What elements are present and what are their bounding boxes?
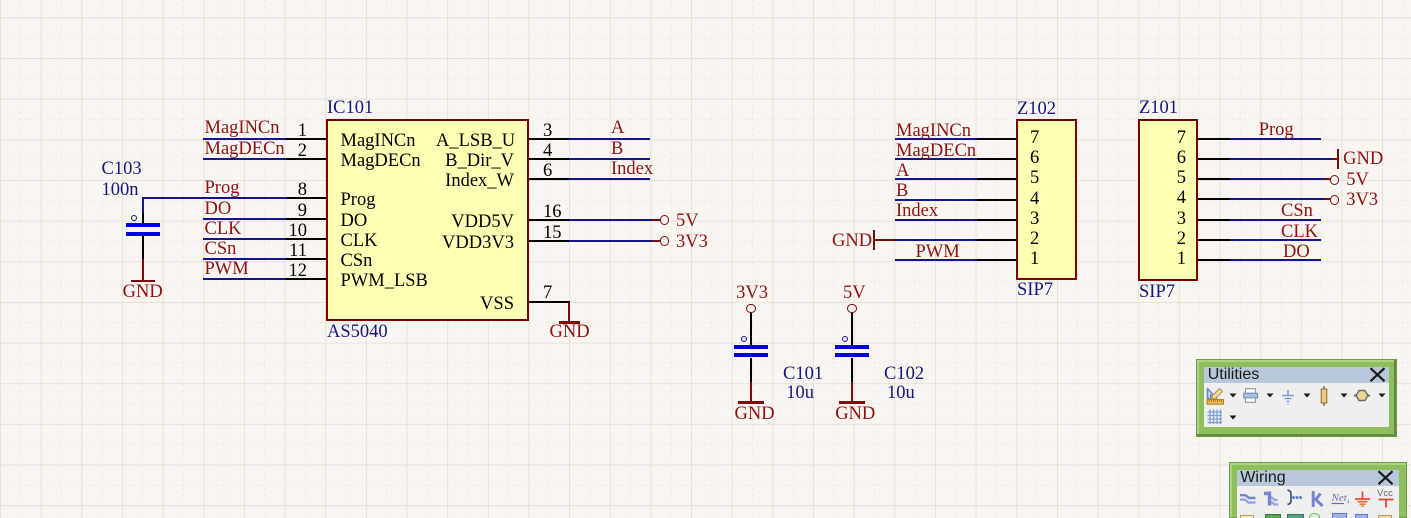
junction marker circle C103 bbox=[131, 215, 137, 221]
wire Prog (Z101) bbox=[1230, 138, 1321, 140]
pin number 7 (Z102) bbox=[1030, 129, 1039, 147]
pin 16 VDD5V: pin line bbox=[529, 219, 570, 221]
wire MagDECn (left) bbox=[203, 158, 286, 160]
pin name CLK bbox=[341, 232, 378, 250]
pin number 2 (Z101) bbox=[1168, 230, 1186, 248]
pin 7 VSS: pin line bbox=[529, 301, 570, 303]
pin number 7 bbox=[543, 284, 552, 302]
Utilities title bar bbox=[1204, 367, 1389, 383]
svg-text:Net]: Net] bbox=[1331, 492, 1349, 504]
net label MagINCn (Z102) bbox=[896, 122, 971, 140]
power port GND (Z101) bar bbox=[1337, 149, 1339, 169]
Utilities icon: power port (ground) bbox=[1280, 390, 1296, 405]
Z101 pin 7: pin line bbox=[1198, 138, 1231, 140]
wire CSn (left) bbox=[203, 258, 286, 260]
Utilities dropdown arrow 2 bbox=[1266, 393, 1274, 399]
Z101 pin 5: pin line bbox=[1198, 178, 1231, 180]
power port GND (C103) text bbox=[123, 283, 163, 301]
wire B (Z102) bbox=[895, 199, 977, 201]
net label CSn bbox=[205, 240, 237, 258]
power port 3V3 (Z101) stub bbox=[1325, 198, 1330, 200]
Utilities icon: part/pin body bbox=[1318, 386, 1330, 406]
pin name VSS bbox=[436, 295, 514, 313]
pin 8 Prog: pin line bbox=[286, 197, 326, 199]
designator Z101 bbox=[1139, 99, 1178, 117]
capacitor C101 value 10u bbox=[786, 384, 814, 402]
net label CSn (Z101) bbox=[1281, 202, 1313, 220]
Z101 pin 1: pin line bbox=[1198, 259, 1231, 261]
net label MagDECn (Z102) bbox=[896, 142, 976, 160]
power port GND (C102) vertical bbox=[851, 382, 853, 402]
pin number 1 (Z101) bbox=[1168, 250, 1186, 268]
power port 5V text bbox=[676, 212, 699, 230]
power port 5V circle bbox=[660, 215, 670, 225]
pin number 9 bbox=[280, 202, 307, 220]
power port GND (C101) vertical bbox=[750, 382, 752, 402]
net label B bbox=[611, 140, 623, 158]
Wiring title text bbox=[1240, 469, 1285, 487]
pin number 2 bbox=[280, 142, 307, 160]
wire C103 vertical from Prog wire bbox=[142, 197, 144, 213]
Utilities icon: diamond (no ERC) bbox=[1353, 389, 1371, 402]
pin number 16 bbox=[543, 203, 562, 221]
Wiring icon: net label bbox=[1331, 492, 1349, 506]
pin 10 CLK: pin line bbox=[286, 238, 326, 240]
net label CLK bbox=[205, 220, 242, 238]
power port GND (Z101) text bbox=[1343, 150, 1383, 168]
pin name B_Dir_V bbox=[436, 152, 514, 170]
net label B (Z102) bbox=[896, 182, 908, 200]
pin 3 A_LSB_U: pin line bbox=[529, 138, 570, 140]
Utilities icon: drawing tools (set square and pencil) bbox=[1206, 387, 1225, 405]
power port GND (C102) text bbox=[835, 405, 875, 423]
power port 3V3 circle bbox=[660, 236, 670, 246]
Utilities close X bbox=[1369, 367, 1387, 383]
Z101 pin 3: pin line bbox=[1198, 219, 1231, 221]
pin 6 Index_W: pin line bbox=[529, 178, 570, 180]
power port GND (Z102) text bbox=[832, 232, 872, 250]
pin number 4 (Z101) bbox=[1168, 189, 1186, 207]
pin 12 PWM: pin line bbox=[286, 278, 326, 280]
pin name MagDECn bbox=[341, 152, 421, 170]
pin name CSn bbox=[341, 252, 373, 270]
net label Index bbox=[611, 160, 653, 178]
wire CLK (left) bbox=[203, 238, 286, 240]
capacitor C103 pin top bbox=[142, 213, 144, 224]
Wiring close X bbox=[1377, 470, 1395, 486]
wire Prog from C103 junction to pin 8 bbox=[142, 197, 287, 199]
Z102 pin 2: pin line bbox=[976, 239, 1016, 241]
pin name Prog bbox=[341, 191, 376, 209]
net label CLK (Z101) bbox=[1281, 223, 1318, 241]
pin number 6 (Z101) bbox=[1168, 149, 1186, 167]
designator Z102 bbox=[1017, 100, 1056, 118]
Utilities icon: alignment tool bbox=[1243, 388, 1260, 403]
net label MagINCn bbox=[205, 119, 280, 137]
pin number 11 bbox=[280, 242, 307, 260]
power port 5V (C102) text bbox=[843, 284, 866, 302]
capacitor C102 bottom plate bbox=[835, 353, 869, 357]
net label Prog bbox=[205, 179, 240, 197]
net label A bbox=[611, 119, 624, 137]
pin name Index_W bbox=[436, 172, 514, 190]
net label PWM bbox=[205, 260, 249, 278]
net label DO (Z101) bbox=[1283, 243, 1310, 261]
capacitor C103 bottom plate bbox=[126, 232, 160, 236]
wire to 3V3 port bbox=[569, 240, 652, 242]
pin name PWM_LSB bbox=[341, 272, 428, 290]
Z102 pin 3: pin line bbox=[976, 219, 1016, 221]
wire GND (Z102) bbox=[895, 239, 977, 241]
Utilities icon: grid bbox=[1207, 409, 1223, 425]
wire to 5V port bbox=[569, 219, 652, 221]
wire PWM (left) bbox=[203, 278, 286, 280]
capacitor C102 pin top bbox=[851, 313, 853, 345]
capacitor C101 pin bottom bbox=[750, 358, 752, 382]
power port GND (Z101) stub bbox=[1332, 158, 1338, 160]
Utilities toolbar panel frame bbox=[1196, 359, 1397, 438]
junction marker circle C101 bbox=[741, 336, 747, 342]
connector Z101 body bbox=[1138, 119, 1198, 281]
value SIP7 (Z102) bbox=[1017, 281, 1053, 299]
power port 3V3 (Z101) text bbox=[1346, 191, 1378, 209]
capacitor C103 designator bbox=[102, 160, 142, 178]
pin number 7 (Z101) bbox=[1168, 129, 1186, 147]
power port 5V (Z101) circle bbox=[1330, 175, 1340, 185]
Utilities dropdown arrow 4 bbox=[1340, 393, 1348, 399]
pin 11 CSn: pin line bbox=[286, 258, 326, 260]
op-amp/encoder IC U=IC101 body bbox=[326, 119, 529, 321]
wire A (right) bbox=[569, 138, 650, 140]
wire CLK (Z101) bbox=[1230, 239, 1321, 241]
pin number 5 (Z101) bbox=[1168, 169, 1186, 187]
Utilities title text bbox=[1208, 366, 1260, 384]
Z101 pin 4: pin line bbox=[1198, 198, 1231, 200]
power port 3V3 (C101) circle bbox=[746, 304, 756, 314]
wire Index (Z102) bbox=[895, 219, 977, 221]
Z101 pin 6: pin line bbox=[1198, 158, 1231, 160]
pin 4 B_Dir_V: pin line bbox=[529, 158, 570, 160]
designator IC101 bbox=[327, 99, 373, 117]
value SIP7 (Z101) bbox=[1139, 283, 1175, 301]
wire GND (Z101) bbox=[1230, 158, 1332, 160]
power port 5V (C102) circle bbox=[847, 304, 857, 314]
pin 1 MagINCn: pin line bbox=[286, 138, 326, 140]
power port GND (Z102) bar bbox=[873, 230, 875, 250]
capacitor C103 value 100n bbox=[102, 181, 139, 199]
Wiring icon: VCC port bbox=[1377, 488, 1395, 508]
power port GND (VSS) text bbox=[550, 323, 590, 341]
Z102 pin 5: pin line bbox=[976, 178, 1016, 180]
power port GND (Z102) stub bbox=[875, 239, 896, 241]
pin name A_LSB_U bbox=[436, 132, 514, 150]
net label Index (Z102) bbox=[896, 202, 938, 220]
Utilities body bbox=[1204, 383, 1389, 428]
pin number 15 bbox=[543, 224, 562, 242]
Wiring icon: place line bbox=[1311, 490, 1325, 508]
capacitor C102 top plate bbox=[835, 345, 869, 349]
power port 3V3 (C101) text bbox=[736, 284, 768, 302]
pin number 8 bbox=[280, 181, 307, 199]
power port GND (C102) bar bbox=[839, 401, 865, 404]
wire Index (right) bbox=[569, 178, 650, 180]
net label MagDECn bbox=[205, 140, 285, 158]
net label A (Z102) bbox=[896, 162, 909, 180]
pin name VDD5V bbox=[436, 213, 514, 231]
pin number 4 bbox=[543, 142, 552, 160]
capacitor C101 pin top bbox=[750, 313, 752, 345]
pin number 2 (Z102) bbox=[1030, 230, 1039, 248]
power port 3V3 text bbox=[676, 233, 708, 251]
wire 3V3 (Z101) bbox=[1230, 198, 1325, 200]
Wiring icon: place wire bbox=[1239, 493, 1257, 505]
power port GND (VSS) bar bbox=[559, 321, 580, 323]
wire 5V (Z101) bbox=[1230, 178, 1325, 180]
Z101 pin 2: pin line bbox=[1198, 239, 1231, 241]
pin number 6 (Z102) bbox=[1030, 149, 1039, 167]
Z102 pin 7: pin line bbox=[976, 138, 1016, 140]
net label PWM (Z102) bbox=[916, 243, 960, 261]
power port 5V stub bbox=[652, 219, 660, 221]
power port 3V3 stub bbox=[652, 240, 660, 242]
pin 9 DO: pin line bbox=[286, 218, 326, 220]
capacitor C101 top plate bbox=[734, 345, 768, 349]
Wiring icon: bus entry bbox=[1286, 489, 1304, 506]
power port GND (C103) vertical bbox=[142, 259, 144, 280]
capacitor C102 pin bottom bbox=[851, 358, 853, 382]
Utilities dropdown arrow 3 bbox=[1303, 393, 1311, 399]
Wiring second row icon slivers bbox=[1240, 515, 1254, 518]
Wiring icon: GND port bbox=[1354, 491, 1371, 507]
power port GND (VSS) vertical bbox=[568, 302, 570, 322]
pin number 5 (Z102) bbox=[1030, 169, 1039, 187]
net label DO bbox=[205, 200, 232, 218]
pin number 6 bbox=[543, 162, 552, 180]
power port 5V (Z101) text bbox=[1346, 171, 1369, 189]
power port 3V3 (Z101) circle bbox=[1330, 195, 1340, 205]
pin name VDD3V3 bbox=[436, 234, 514, 252]
capacitor C103 pin bottom bbox=[142, 236, 144, 260]
wire MagDECn (Z102) bbox=[895, 158, 977, 160]
power port GND (C103) bar bbox=[131, 280, 155, 282]
Wiring body bbox=[1237, 486, 1399, 518]
pin number 4 (Z102) bbox=[1030, 190, 1039, 208]
Utilities dropdown arrow 1 bbox=[1229, 393, 1237, 399]
wire CSn (Z101) bbox=[1230, 219, 1321, 221]
power port GND (C101) bar bbox=[738, 401, 764, 404]
wire MagINCn (Z102) bbox=[895, 138, 977, 140]
Z102 pin 6: pin line bbox=[976, 158, 1016, 160]
power port 5V (Z101) stub bbox=[1325, 178, 1330, 180]
Utilities dropdown arrow 6 bbox=[1229, 415, 1237, 421]
wire MagINCn (left) bbox=[203, 138, 286, 140]
pin number 10 bbox=[280, 222, 307, 240]
pin 2 MagDECn: pin line bbox=[286, 158, 326, 160]
svg-text:Vcc: Vcc bbox=[1377, 488, 1393, 499]
pin number 1 (Z102) bbox=[1030, 250, 1039, 268]
pin number 1 bbox=[280, 122, 307, 140]
capacitor C101 designator bbox=[783, 365, 823, 383]
pin name DO bbox=[341, 212, 368, 230]
capacitor C102 designator bbox=[884, 365, 924, 383]
junction marker circle C102 bbox=[842, 336, 848, 342]
wire DO (Z101) bbox=[1230, 259, 1321, 261]
Wiring toolbar panel frame bbox=[1229, 462, 1407, 518]
wire DO (left) bbox=[203, 218, 286, 220]
pin number 3 (Z101) bbox=[1168, 210, 1186, 228]
pin 15 VDD3V3: pin line bbox=[529, 240, 570, 242]
wire B (right) bbox=[569, 158, 650, 160]
power port GND (C101) text bbox=[735, 405, 775, 423]
Z102 pin 1: pin line bbox=[976, 259, 1016, 261]
wire PWM (Z102) bbox=[895, 259, 977, 261]
capacitor C101 bottom plate bbox=[734, 353, 768, 357]
pin number 3 bbox=[543, 122, 552, 140]
value AS5040 bbox=[327, 323, 388, 341]
net label Prog (Z101) bbox=[1259, 121, 1294, 139]
Z102 pin 4: pin line bbox=[976, 199, 1016, 201]
capacitor C102 value 10u bbox=[887, 384, 915, 402]
capacitor C103 top plate bbox=[126, 223, 160, 227]
wire A (Z102) bbox=[895, 178, 977, 180]
pin number 3 (Z102) bbox=[1030, 210, 1039, 228]
pin name MagINCn bbox=[341, 132, 416, 150]
connector Z102 body bbox=[1016, 119, 1077, 281]
pin number 12 bbox=[280, 262, 307, 280]
Utilities dropdown arrow 5 bbox=[1378, 393, 1386, 399]
Wiring title bar bbox=[1237, 470, 1399, 486]
Wiring icon: place bus bbox=[1263, 491, 1281, 507]
